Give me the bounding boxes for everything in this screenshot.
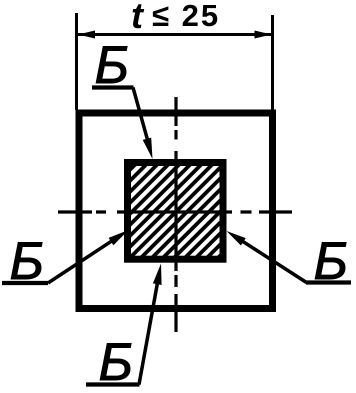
label B bottom: underline [86, 382, 140, 386]
dimension arrow right [255, 31, 272, 39]
label B top: leader wire [133, 88, 150, 148]
label B left: leader wire [48, 238, 116, 283]
dimension line [78, 33, 272, 36]
extension line left [75, 13, 78, 110]
label B bottom: arrowhead [153, 264, 162, 286]
label B right: arrowhead [227, 231, 246, 246]
label B right: underline [306, 280, 351, 284]
outer square [79, 113, 273, 309]
label B left: underline [2, 281, 48, 285]
dimension arrow left [78, 31, 95, 39]
label B right: leader wire [240, 240, 307, 283]
svg-text:t: t [131, 0, 145, 36]
label B left: arrowhead [109, 230, 129, 245]
label B top: underline [92, 85, 134, 89]
center line vertical [174, 97, 177, 332]
extension line right [271, 15, 274, 110]
svg-text:≤ 25: ≤ 25 [152, 0, 220, 33]
label B top: arrowhead [143, 138, 153, 159]
center line horizontal [58, 210, 292, 213]
hatched square border [128, 163, 224, 260]
hatched square fill [129, 164, 222, 258]
label B bottom: leader wire [139, 280, 158, 385]
